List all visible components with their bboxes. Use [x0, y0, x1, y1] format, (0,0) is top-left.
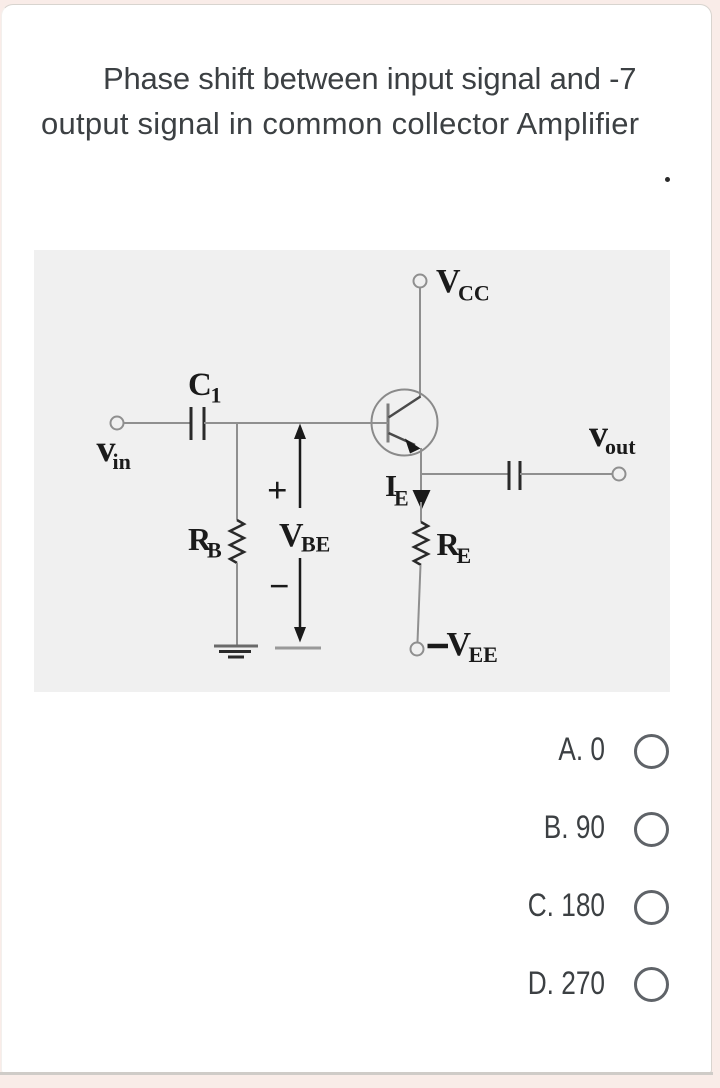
label RE: [437, 526, 472, 568]
label VBE: [279, 517, 330, 557]
capacitor C1: [191, 407, 204, 440]
svg-text:out: out: [605, 434, 636, 459]
ground: [214, 646, 258, 657]
svg-text:B: B: [207, 538, 222, 563]
svg-text:EE: EE: [469, 642, 498, 667]
svg-text:in: in: [113, 449, 131, 474]
options: [408, 731, 605, 768]
wire base node down to RB: [236, 423, 238, 520]
wire emitter to output node: [420, 448, 422, 474]
svg-text:E: E: [457, 543, 472, 568]
VBE arrow (double-headed): [294, 424, 306, 643]
svg-text:BE: BE: [301, 532, 330, 557]
svg-text:CC: CC: [458, 281, 490, 306]
transistor Q1: [372, 390, 438, 456]
svg-text:−: −: [269, 566, 290, 606]
output terminal vout: [613, 468, 626, 481]
label RB: [188, 521, 222, 563]
IE arrow on emitter wire: [413, 474, 431, 510]
wire C2 to vout: [520, 473, 613, 475]
wire RE to -VEE: [418, 565, 421, 642]
wire C1 to base: [204, 422, 388, 424]
wire emitter node to C2: [421, 473, 509, 475]
svg-text:E: E: [394, 486, 409, 511]
power terminal VCC: [414, 275, 427, 288]
label IE: [385, 468, 409, 511]
capacitor C2: [509, 461, 520, 490]
wire RB to ground: [236, 563, 238, 647]
short line under VBE arrow: [275, 647, 321, 650]
label VCC: [436, 263, 490, 306]
label vout: [589, 413, 636, 459]
label -VEE: [428, 626, 498, 667]
label C1: [188, 367, 222, 408]
svg-text:C: C: [188, 367, 212, 403]
label vin: [97, 428, 131, 474]
figure background: [34, 250, 670, 692]
wire VCC to collector: [419, 288, 421, 398]
wire IE arrow to RE: [420, 502, 422, 522]
input terminal vin: [111, 417, 124, 430]
power terminal -VEE: [411, 643, 424, 656]
wire vin to C1: [124, 422, 192, 424]
resistor RB: [230, 520, 244, 563]
resistor RE: [414, 522, 428, 565]
svg-text:+: +: [267, 470, 288, 510]
svg-text:1: 1: [211, 383, 222, 408]
